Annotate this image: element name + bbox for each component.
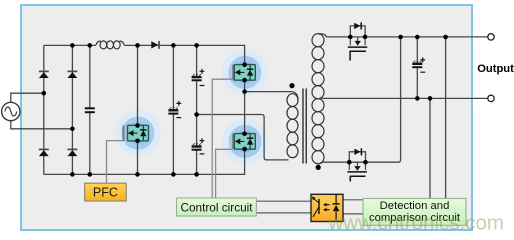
wire PFC gate — [107, 141, 124, 184]
wire secondary bottom lead — [318, 162, 349, 164]
wire cap midpoint to primary bottom — [197, 115, 289, 160]
wire bottom bus — [44, 149, 245, 174]
wire control to opto lower — [256, 212, 311, 214]
output terminal plus — [488, 34, 494, 40]
junction leg 2 bottom bus — [70, 172, 75, 177]
diode D1 — [39, 71, 49, 78]
mosfet Q4 sync bottom — [347, 148, 368, 181]
wire opto to detection lower — [343, 213, 363, 215]
mosfet Q1 half-bridge high — [233, 63, 255, 83]
wire half-bridge mid to primary top — [245, 92, 298, 100]
control circuit block — [177, 198, 257, 216]
junction AC-top to bridge leg 1 — [42, 91, 47, 96]
diode D5 boost — [151, 41, 159, 49]
wire Q2 gate to control — [216, 149, 232, 198]
phase dot secondary — [316, 165, 321, 170]
svg-text:Output: Output — [477, 63, 514, 75]
inductor L1 — [96, 41, 124, 49]
optocoupler U3 — [311, 194, 343, 221]
junction detection tap return — [428, 96, 433, 101]
wire detection input from output plus — [445, 37, 447, 199]
wire output cap branch — [416, 37, 418, 98]
glow Q1 — [222, 49, 268, 95]
capacitor C5 output — [412, 57, 425, 72]
wire secondary top lead — [318, 34, 488, 37]
transformer T1 secondary — [312, 34, 324, 164]
wire opto to detection upper — [343, 199, 363, 201]
wire AC bottom to node B — [11, 121, 73, 129]
wire secondary center tap to output return — [322, 97, 489, 99]
wire top rail right — [124, 45, 244, 64]
junction capacitor midpoint node — [194, 112, 199, 117]
wire bridge leg 2 — [71, 45, 73, 174]
junction U2 source on bus — [135, 172, 140, 177]
output terminal minus — [488, 95, 494, 101]
wire PFC mosfet drain-source — [137, 45, 139, 174]
transformer T1 core — [303, 89, 306, 164]
glow Q2 — [222, 118, 268, 164]
glow U2 — [115, 110, 161, 156]
wire series cap branch — [196, 45, 198, 174]
junction C5 bottom — [415, 96, 420, 101]
mosfet Q3 sync top — [348, 22, 368, 60]
svg-text:www.cntronics.com: www.cntronics.com — [328, 212, 504, 235]
detection and comparison circuit block — [363, 198, 466, 225]
diode D4 — [67, 149, 77, 156]
wire sync mosfet top loop — [350, 26, 365, 37]
transformer T1 primary — [287, 94, 298, 158]
junction C3 top — [194, 43, 199, 48]
svg-text:Control circuit: Control circuit — [180, 201, 253, 215]
wire sync mosfet bottom loop — [349, 152, 365, 162]
junction C2 bottom — [171, 172, 176, 177]
junction C4 bottom — [194, 172, 199, 177]
junction U2 drain on rail — [135, 43, 140, 48]
PFC block — [85, 183, 127, 201]
wire bridge leg 1 — [43, 45, 45, 174]
wire input cap branch — [89, 45, 91, 174]
mosfet Q2 half-bridge low — [233, 132, 255, 152]
junction detection tap plus — [443, 35, 448, 40]
junction C1 top — [88, 43, 93, 48]
wire AC top to node A — [11, 93, 44, 102]
wire sync mosfet bottom to output plus — [349, 37, 400, 162]
phase dot primary — [289, 83, 294, 88]
capacitor C2 bulk — [168, 101, 181, 118]
junction C2 top — [171, 43, 176, 48]
diode D2 — [67, 71, 77, 78]
capacitor C1 — [85, 108, 95, 112]
junction AC-bottom to bridge leg 2 — [70, 127, 75, 132]
wire top rail left — [44, 44, 96, 46]
capacitor C3 series top — [192, 69, 205, 86]
junction C5 top — [415, 35, 420, 40]
junction C1 bottom — [88, 172, 93, 177]
svg-text:PFC: PFC — [93, 186, 118, 200]
capacitor C4 series bottom — [192, 138, 205, 154]
wire control to opto upper — [256, 200, 311, 202]
svg-text:Detection and: Detection and — [380, 200, 450, 212]
wire detection input from output return — [429, 98, 431, 198]
AC source V1 — [2, 102, 20, 120]
junction Q4 output on plus rail — [398, 35, 403, 40]
wire bulk cap branch — [172, 45, 174, 174]
mosfet U2 PFC — [124, 123, 149, 143]
wire half-bridge midpoint — [244, 80, 246, 134]
junction leg 2 top rail — [70, 43, 75, 48]
diode D3 — [39, 149, 49, 156]
junction half-bridge midpoint node — [242, 89, 247, 94]
wire Q1 gate to control — [212, 79, 233, 198]
